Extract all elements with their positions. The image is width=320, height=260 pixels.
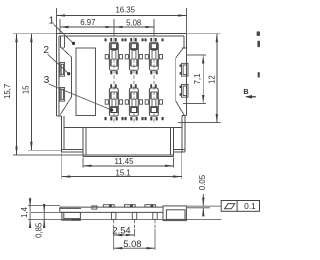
svg-text:5.08: 5.08 xyxy=(126,19,141,28)
svg-text:1: 1 xyxy=(49,15,55,26)
svg-text:16.35: 16.35 xyxy=(115,5,135,14)
svg-text:11.45: 11.45 xyxy=(115,157,135,166)
svg-text:6.97: 6.97 xyxy=(80,18,95,27)
svg-text:2: 2 xyxy=(43,45,49,56)
svg-text:B: B xyxy=(243,87,248,96)
svg-text:5.08: 5.08 xyxy=(123,238,141,249)
svg-text:0.1: 0.1 xyxy=(244,201,256,211)
svg-text:0.05: 0.05 xyxy=(198,174,207,190)
svg-text:1,4: 1,4 xyxy=(20,206,29,218)
svg-text:12: 12 xyxy=(207,75,216,84)
svg-text:2.54: 2.54 xyxy=(112,225,130,236)
svg-text:15.1: 15.1 xyxy=(116,168,131,177)
svg-text:15,7: 15,7 xyxy=(3,84,12,99)
svg-text:0,85: 0,85 xyxy=(35,222,44,238)
svg-text:7,1: 7,1 xyxy=(193,74,202,85)
svg-text:15: 15 xyxy=(21,85,30,94)
svg-text:3: 3 xyxy=(44,75,50,86)
